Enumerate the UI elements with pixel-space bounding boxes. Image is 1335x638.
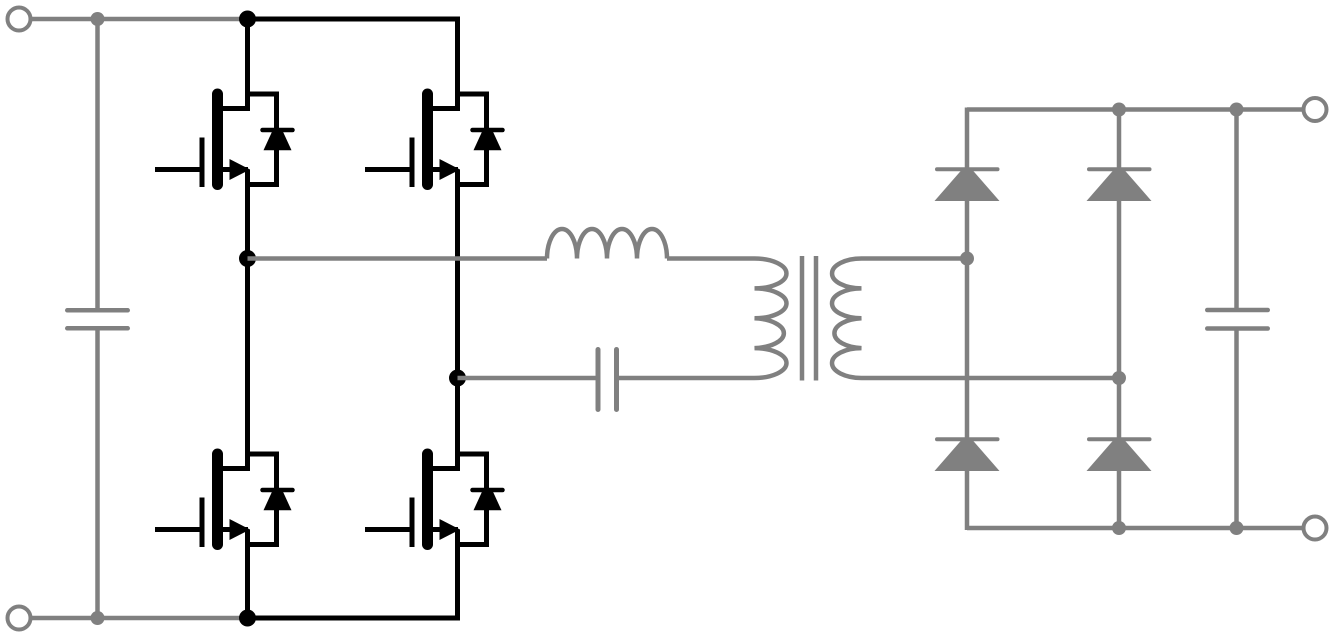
diode D4 (lower right rectifier diode) <box>1087 439 1152 471</box>
body diode of Q3 <box>245 454 293 545</box>
wire: output capacitor top lead <box>1234 110 1239 311</box>
junction: node A (left bridge midpoint) <box>239 250 256 267</box>
wire: rectifier left leg <box>965 108 970 531</box>
capacitor C3 (output filter capacitor) <box>1207 310 1268 329</box>
wire: rectifier right leg <box>1117 108 1122 531</box>
junction: top rail right leg node <box>1112 103 1126 117</box>
transformer T1 core <box>802 256 816 381</box>
transformer T1 primary winding <box>755 259 787 379</box>
junction: bottom rail / Q3-Q4 source node <box>239 610 256 627</box>
wire: positive DC rail (top, black) <box>245 17 460 22</box>
diode D1 (upper left rectifier diode) <box>935 169 1000 201</box>
body diode of Q4 <box>455 454 503 545</box>
junction: bottom rail right leg node <box>1112 521 1126 535</box>
junction: secondary bottom to right leg <box>1112 371 1126 385</box>
diode D2 (upper right rectifier diode) <box>1087 169 1152 201</box>
inductor L1 (resonant inductor) <box>547 229 667 259</box>
wire: inductor to transformer primary top <box>667 256 755 261</box>
junction: top rail output cap node <box>1230 103 1244 117</box>
transistor Q4 (bottom-right N-MOSFET) <box>365 379 460 548</box>
wire: top-left input terminal to DC bus <box>31 17 248 22</box>
wire: series capacitor to transformer primary bottom <box>617 376 755 381</box>
wire: rectifier bottom rail <box>967 526 1303 531</box>
junction: bottom rail output cap node <box>1230 521 1244 535</box>
wire: node A to resonant inductor <box>248 256 548 261</box>
transistor Q1 (top-left N-MOSFET) <box>155 19 250 188</box>
wire: Q3 source to bottom rail <box>245 530 250 621</box>
diode D3 (lower left rectifier diode) <box>935 439 1000 471</box>
wire: output capacitor bottom lead <box>1234 329 1239 529</box>
junction: node B (right bridge midpoint) <box>449 370 466 387</box>
body diode of Q2 <box>455 94 503 185</box>
junction: input cap top node <box>91 12 105 26</box>
wire: negative DC rail (bottom, black) <box>245 616 460 621</box>
wire: node B to series resonant capacitor <box>458 376 599 381</box>
wire: left leg Q1 source to Q3 drain <box>245 170 250 472</box>
input terminal (top-left) <box>8 8 31 31</box>
wire: right leg Q2 source to Q4 drain <box>455 170 460 472</box>
output terminal (bottom-right) <box>1304 517 1327 540</box>
wire: Q4 source to bottom rail <box>455 530 460 621</box>
junction: input cap bottom node <box>91 611 105 625</box>
wire: secondary top to rectifier left leg <box>862 256 968 261</box>
output terminal (top-right) <box>1304 98 1327 121</box>
body diode of Q1 <box>245 94 293 185</box>
transistor Q3 (bottom-left N-MOSFET) <box>155 379 250 548</box>
wire: input capacitor bottom lead <box>95 328 100 618</box>
wire: input capacitor top lead <box>95 19 100 310</box>
capacitor C1 (input DC-link capacitor) <box>67 310 128 328</box>
junction: top rail / Q1-Q2 drain node <box>239 11 256 28</box>
input terminal (bottom-left) <box>8 607 31 630</box>
capacitor C2 (series resonant capacitor) <box>598 350 617 410</box>
wire: rectifier top rail <box>967 107 1303 112</box>
wire: secondary bottom to rectifier right leg <box>862 376 1120 381</box>
junction: secondary top to left leg <box>960 252 974 266</box>
wire: bottom-left input terminal to DC bus <box>31 616 248 621</box>
transistor Q2 (top-right N-MOSFET) <box>365 19 460 188</box>
transformer T1 secondary winding <box>832 259 862 379</box>
